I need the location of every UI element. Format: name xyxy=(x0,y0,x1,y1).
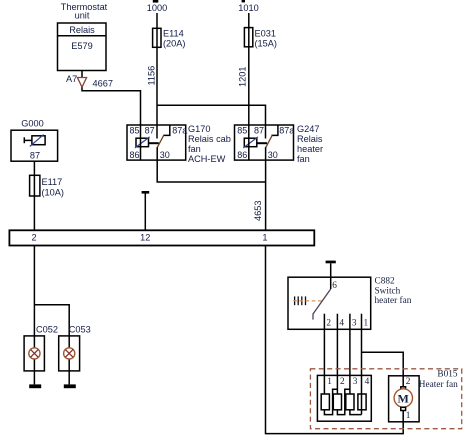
svg-text:3: 3 xyxy=(352,319,357,329)
switch bottom pin labels 2 4 3 1 xyxy=(326,319,368,329)
svg-text:86: 86 xyxy=(130,150,140,160)
svg-text:4653: 4653 xyxy=(253,201,263,221)
svg-text:fan: fan xyxy=(297,154,310,164)
svg-text:fan: fan xyxy=(188,144,201,154)
G000 pin label 87 xyxy=(30,151,40,161)
svg-text:85: 85 xyxy=(237,126,247,136)
svg-text:87: 87 xyxy=(145,126,155,136)
svg-text:2: 2 xyxy=(31,233,36,243)
fuse E117 xyxy=(30,175,40,196)
resistor R4 xyxy=(358,394,366,410)
wire label 1156 xyxy=(146,66,156,86)
label G170 Relais cab fan ACH-EW xyxy=(188,124,231,164)
switch C882 box xyxy=(288,277,371,329)
svg-text:A7: A7 xyxy=(66,74,77,84)
svg-text:E114: E114 xyxy=(163,29,184,39)
G000 contact symbol xyxy=(24,135,45,147)
wire R3 to R4 bottom link xyxy=(350,410,362,415)
switch C882 dashed link xyxy=(293,300,322,302)
relay G247 pin 87 stub xyxy=(265,125,267,139)
svg-text:C882: C882 xyxy=(375,277,395,287)
svg-text:1156: 1156 xyxy=(146,66,156,86)
wire G170 pin 30 down xyxy=(157,147,265,182)
svg-text:B015: B015 xyxy=(437,369,457,379)
svg-text:Switch: Switch xyxy=(375,286,401,296)
label Heater fan xyxy=(419,379,458,390)
svg-text:G000: G000 xyxy=(21,119,43,129)
wire R2 chain link xyxy=(337,389,350,414)
label E579 xyxy=(71,41,92,51)
svg-text:E117: E117 xyxy=(42,177,63,187)
ground C053 xyxy=(64,384,76,388)
G170 pin labels xyxy=(130,126,188,161)
label C882 Switch heater fan xyxy=(375,277,412,306)
relay G170 pin 87a stub xyxy=(163,125,170,135)
svg-text:M: M xyxy=(398,391,409,405)
svg-text:Relais: Relais xyxy=(297,134,323,144)
svg-text:E579: E579 xyxy=(71,41,92,51)
resistor block pin labels 1 2 3 4 xyxy=(327,377,369,387)
svg-text:4667: 4667 xyxy=(93,79,113,89)
net label 1010 xyxy=(238,3,258,13)
motor B015 box xyxy=(389,376,420,422)
svg-text:(20A): (20A) xyxy=(163,39,185,49)
bus pin label 1 xyxy=(262,233,267,243)
resistor R1 xyxy=(321,394,329,410)
relay G247 coil xyxy=(243,125,258,160)
fuse E031 xyxy=(244,28,252,47)
relay G247 armature link xyxy=(257,142,267,144)
switch C882 arm xyxy=(313,289,331,320)
net label 1000 xyxy=(147,3,167,13)
svg-text:1: 1 xyxy=(364,319,369,329)
wire branch 1156 to G247 xyxy=(157,105,266,125)
svg-text:30: 30 xyxy=(160,150,170,160)
motor terminal 1 xyxy=(401,407,406,410)
svg-text:30: 30 xyxy=(268,150,278,160)
svg-text:3: 3 xyxy=(353,377,358,387)
svg-text:4: 4 xyxy=(365,377,370,387)
fuse E114 xyxy=(153,28,161,47)
svg-text:1: 1 xyxy=(327,377,332,387)
relay G170 pin 87 stub xyxy=(156,125,158,139)
wire 1201 feed xyxy=(248,13,250,125)
B015 dashed box xyxy=(310,369,461,429)
svg-text:4: 4 xyxy=(339,319,344,329)
wire 1156 feed xyxy=(156,13,158,125)
relay G247 contact arm xyxy=(266,135,273,148)
label Relais xyxy=(69,25,95,35)
resistor block box xyxy=(317,375,371,421)
svg-text:87: 87 xyxy=(254,126,264,136)
bus pin label 2 xyxy=(31,233,36,243)
svg-text:1201: 1201 xyxy=(237,67,247,87)
wire label 1201 xyxy=(237,67,247,87)
bus bar connector xyxy=(9,230,314,245)
svg-text:E031: E031 xyxy=(255,29,276,39)
lamp C052 symbol xyxy=(29,348,40,359)
relay G170 coil xyxy=(135,125,150,160)
terminal stub at bus 12 xyxy=(142,191,150,230)
connector triangle A7 xyxy=(77,78,86,88)
switch pin label 6 xyxy=(332,281,337,291)
connector mark top 1000 xyxy=(153,0,159,3)
G247 pin labels xyxy=(237,126,294,161)
bus pin label 12 xyxy=(140,233,150,243)
svg-text:87: 87 xyxy=(30,151,40,161)
switch pin 3 wire xyxy=(349,314,351,394)
lamp C052 box xyxy=(24,336,44,371)
relay G170 armature link xyxy=(149,142,159,144)
switch pin 1 wire xyxy=(361,314,363,376)
svg-text:G170: G170 xyxy=(188,124,210,134)
switch pin 2 wire xyxy=(323,314,325,394)
label E114 (20A) xyxy=(163,29,185,49)
svg-text:G247: G247 xyxy=(297,124,319,134)
svg-text:1000: 1000 xyxy=(147,3,167,13)
label C052 xyxy=(36,325,58,335)
motor M letter xyxy=(398,391,409,405)
resistor R2 xyxy=(333,394,341,410)
wire 4653 G247 pin 30 to bus xyxy=(265,147,267,229)
wire G000 pin 87 to bus xyxy=(33,161,35,230)
wire pin4 through R4 xyxy=(361,375,363,414)
svg-text:85: 85 xyxy=(130,126,140,136)
label G247 Relais heater fan xyxy=(297,124,323,164)
pin label A7 xyxy=(66,74,77,84)
wire label 4667 xyxy=(93,79,113,89)
label E117 (10A) xyxy=(42,177,64,198)
wire branch to C053 xyxy=(34,305,69,336)
svg-text:heater: heater xyxy=(297,144,323,154)
motor terminal 2 xyxy=(401,387,406,390)
svg-text:heater fan: heater fan xyxy=(375,295,412,306)
wire bus 1 down and bottom run to motor xyxy=(266,246,404,434)
svg-text:87a: 87a xyxy=(279,126,294,136)
svg-text:Relais cab: Relais cab xyxy=(188,134,231,144)
wire bus 2 down to lamps xyxy=(33,246,35,336)
svg-text:2: 2 xyxy=(340,377,345,387)
svg-text:ACH-EW: ACH-EW xyxy=(188,154,226,164)
relay G170 contact arm xyxy=(157,135,164,148)
relay G247 box xyxy=(235,125,294,160)
lamp C053 symbol xyxy=(64,348,75,359)
thermostat unit box E579 xyxy=(58,23,107,71)
relay G247 pin 87a stub xyxy=(271,125,278,135)
svg-text:(15A): (15A) xyxy=(255,39,277,49)
lamp C053 box xyxy=(59,336,80,371)
svg-text:12: 12 xyxy=(140,233,150,243)
motor M circle xyxy=(394,389,412,407)
svg-text:1: 1 xyxy=(262,233,267,243)
resistor R3 xyxy=(346,394,354,410)
svg-text:2: 2 xyxy=(406,377,411,387)
label B015 xyxy=(437,369,457,379)
svg-text:6: 6 xyxy=(332,281,337,291)
wire C053 lamp to ground xyxy=(68,336,70,384)
svg-text:unit: unit xyxy=(75,10,90,20)
wire C052 lamp to ground xyxy=(33,336,35,384)
svg-text:C052: C052 xyxy=(36,325,58,335)
label G000 xyxy=(21,119,43,129)
ground C052 xyxy=(29,384,41,388)
svg-text:86: 86 xyxy=(237,150,247,160)
svg-text:1010: 1010 xyxy=(238,3,258,13)
switch C882 heater icon xyxy=(295,296,306,305)
wire R1 chain link xyxy=(324,389,337,414)
terminal stub above switch pin 6 xyxy=(326,261,336,289)
relay G170 box xyxy=(127,125,186,160)
svg-text:Relais: Relais xyxy=(69,25,95,35)
motor pin label 2 xyxy=(406,377,411,387)
wire label 4653 xyxy=(253,201,263,221)
svg-text:Heater fan: Heater fan xyxy=(419,379,458,390)
svg-text:1: 1 xyxy=(406,411,411,421)
svg-text:2: 2 xyxy=(326,319,331,329)
svg-text:(10A): (10A) xyxy=(42,188,64,198)
svg-text:C053: C053 xyxy=(69,325,91,335)
switch pin 4 wire xyxy=(336,314,338,394)
wire switch pin1 to motor pin2 xyxy=(362,352,404,387)
label C053 xyxy=(69,325,91,335)
label E031 (15A) xyxy=(255,29,277,49)
connector mark top 1010 xyxy=(242,0,245,2)
svg-text:87a: 87a xyxy=(172,126,187,136)
wire thermostat to triangle xyxy=(81,71,83,78)
wire 4667 segment xyxy=(82,87,141,125)
ground unit G000 box xyxy=(11,130,58,161)
motor pin label 1 xyxy=(406,411,411,421)
label Thermostat unit xyxy=(61,2,108,21)
